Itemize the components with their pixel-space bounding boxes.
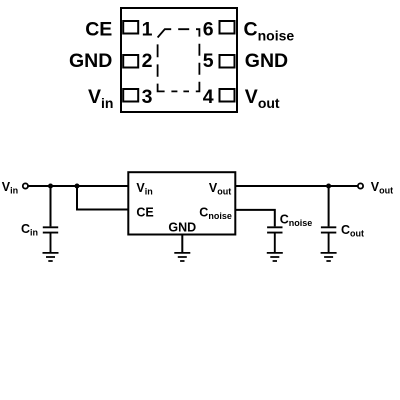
svg-text:1: 1 <box>142 19 153 41</box>
pin 6 pad <box>220 21 235 34</box>
wire Cin lead <box>50 186 52 226</box>
wire Cout lead <box>328 186 330 226</box>
svg-text:Cin: Cin <box>21 222 38 238</box>
ground (Cnoise) <box>267 253 283 261</box>
wire GND lead <box>181 236 183 253</box>
ground (Cin) <box>43 253 59 261</box>
capacitor Cout <box>321 227 336 252</box>
IC package outline U1 (top view) <box>121 8 237 112</box>
wire CE branch <box>77 186 128 210</box>
pin 4 pad <box>220 89 235 102</box>
node Vout terminal <box>358 183 363 188</box>
wire Vin input rail <box>28 185 128 187</box>
ground (Cout) <box>321 253 337 261</box>
svg-text:GND: GND <box>245 50 288 72</box>
junction CE node <box>75 184 80 189</box>
svg-text:Cnoise: Cnoise <box>280 213 313 229</box>
wire Vout output rail <box>235 185 358 187</box>
pin 3 pad <box>123 89 138 102</box>
svg-text:Cnoise: Cnoise <box>199 206 232 222</box>
node Vin terminal <box>23 183 28 188</box>
pin 5 pad <box>220 55 235 68</box>
pin 1 pad <box>123 21 138 34</box>
capacitor Cnoise <box>267 227 282 252</box>
svg-text:GND: GND <box>168 221 196 235</box>
svg-text:Cout: Cout <box>341 223 364 239</box>
svg-text:Vin: Vin <box>136 181 152 197</box>
svg-text:Vout: Vout <box>245 86 280 111</box>
junction Cin node <box>48 184 53 189</box>
svg-text:6: 6 <box>203 19 214 41</box>
wire Cnoise branch <box>235 210 274 227</box>
exposed pad outline (dashed, pin-1 chamfer) <box>158 29 200 91</box>
svg-text:4: 4 <box>203 86 214 108</box>
svg-text:Vin: Vin <box>88 86 113 111</box>
svg-text:Vin: Vin <box>2 180 18 196</box>
junction Vout node <box>326 184 331 189</box>
svg-text:Vout: Vout <box>371 180 393 196</box>
svg-text:CE: CE <box>85 19 112 41</box>
svg-text:Vout: Vout <box>209 181 231 197</box>
regulator U1 block <box>128 172 235 234</box>
svg-text:5: 5 <box>203 50 214 72</box>
ground (U1 GND pin) <box>174 253 190 261</box>
svg-text:3: 3 <box>142 86 153 108</box>
svg-text:CE: CE <box>136 206 153 220</box>
svg-text:Cnoise: Cnoise <box>244 19 295 44</box>
svg-text:GND: GND <box>69 50 112 72</box>
capacitor Cin <box>43 227 58 252</box>
svg-text:2: 2 <box>142 50 153 72</box>
pin 2 pad <box>123 55 138 68</box>
